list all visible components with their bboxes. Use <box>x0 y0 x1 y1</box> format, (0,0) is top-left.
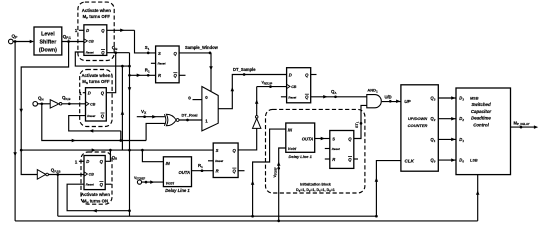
svg-text:Shifter: Shifter <box>40 39 57 45</box>
wire R1 into SR1 R input <box>130 68 156 77</box>
svg-text:Activate when: Activate when <box>81 192 110 197</box>
svg-text:D: D <box>88 91 91 96</box>
svg-text:CB: CB <box>89 40 95 44</box>
svg-text:D: D <box>289 72 292 77</box>
wire QP1B down to bus 2 <box>57 175 59 217</box>
wire SR2 Q up to inverter U3 <box>238 128 257 150</box>
node QA wire FF3 Qbar to AND1 <box>311 89 367 98</box>
delay line 2 box init <box>286 123 315 159</box>
svg-text:CB: CB <box>90 103 96 107</box>
svg-text:Level: Level <box>41 31 55 37</box>
wire SR3 reset stub <box>325 148 330 150</box>
node QN input terminal <box>33 96 44 107</box>
svg-text:COUNTER: COUNTER <box>408 123 428 128</box>
node QP input terminal <box>9 34 19 44</box>
wire FF4 reset loop <box>67 184 129 212</box>
wire FF4 Qbar stub <box>105 183 111 185</box>
svg-text:DT_Real: DT_Real <box>182 113 198 118</box>
svg-text:S: S <box>332 136 335 141</box>
wire SR1 Qbar stub <box>179 74 185 76</box>
SR latch SR3 <box>330 131 354 169</box>
svg-text:Vctrl: Vctrl <box>288 147 297 151</box>
wire QP down left rail <box>13 42 17 221</box>
svg-text:DT_Sample: DT_Sample <box>233 67 256 72</box>
svg-text:CLK: CLK <box>405 158 415 163</box>
svg-text:(Down): (Down) <box>39 47 57 53</box>
wire bottom bus 1 <box>15 220 478 223</box>
wire FF4 Q rising rail <box>121 66 125 150</box>
svg-text:OUTA: OUTA <box>178 170 190 175</box>
svg-text:1: 1 <box>75 159 78 164</box>
svg-text:Delay Line 1: Delay Line 1 <box>165 188 190 193</box>
wire FF1 reset loop <box>75 52 129 67</box>
svg-text:Activate when: Activate when <box>82 8 112 13</box>
wire SR2 Qbar stub <box>238 170 244 172</box>
svg-text:0: 0 <box>188 95 191 100</box>
wire FF4 Q up to S net <box>105 150 117 161</box>
node QB wire from FF1 Qbar <box>107 45 130 54</box>
svg-text:LSB: LSB <box>470 159 478 163</box>
svg-text:Reset: Reset <box>158 62 167 66</box>
svg-text:D: D <box>86 159 89 164</box>
wire FF3 reset stub <box>281 96 287 98</box>
flip-flop FF2 <box>86 88 107 121</box>
wire QP1 down-left to inverter <box>19 42 68 175</box>
wire delay line IN from S net <box>142 150 163 162</box>
wire QB vertical rail down to bus 2 <box>128 53 132 217</box>
wire FF1 Q to SR1 S input <box>107 29 156 55</box>
wire SR3 Qbar stub <box>354 158 358 160</box>
node ST1 wire SR3 Q up to AND1 <box>354 105 367 138</box>
wire FF3 Q stub <box>311 74 317 76</box>
wire FF4 Q long net to SR2 S <box>21 148 213 152</box>
dashed block activate when MN turns OFF <box>80 70 112 127</box>
wire init Vctrl from bus 1 <box>273 148 286 221</box>
node QP1 wire level shifter to FF1 CB <box>62 34 84 43</box>
svg-text:OUTA: OUTA <box>302 136 314 141</box>
node DT_Sample wire mux output to FF3 D <box>218 67 286 109</box>
node VDTREF input terminal <box>134 176 163 184</box>
delay line 1 box <box>163 157 191 193</box>
svg-text:S: S <box>158 51 161 56</box>
svg-text:Activate when: Activate when <box>81 73 110 78</box>
wire SR1 reset stub <box>151 62 156 64</box>
level shifter U1 <box>34 27 62 55</box>
svg-text:Capacitor: Capacitor <box>471 109 492 114</box>
flip-flop FF1 <box>84 25 107 56</box>
svg-text:CB: CB <box>291 85 297 89</box>
svg-text:1: 1 <box>75 28 78 33</box>
mux MUX1 <box>202 87 218 131</box>
AND gate AND1 <box>367 88 382 108</box>
dashed block activate when MN turns ON <box>81 152 112 204</box>
node QNB wire to FF2 CB <box>62 95 86 105</box>
wire QP to level shifter <box>13 40 34 44</box>
svg-text:Reset: Reset <box>86 183 95 187</box>
wire QN to inverter <box>38 102 51 105</box>
wire FF2 reset loop from QN wire <box>69 116 122 142</box>
svg-text:D: D <box>86 28 89 33</box>
node constant 1 into FF4 D <box>75 159 84 164</box>
node U/D wire AND1 to counter UP <box>382 94 401 103</box>
svg-text:R: R <box>216 169 219 174</box>
inverter QP1B <box>37 170 48 180</box>
svg-text:Vctrl: Vctrl <box>166 181 175 185</box>
svg-text:Reset: Reset <box>288 95 297 99</box>
node QP1B wire to FF4 CB <box>48 167 84 175</box>
wire QN down to XNOR <box>42 104 165 142</box>
svg-text:R: R <box>332 157 335 162</box>
node Sample_Window wire to mux select <box>179 45 219 91</box>
node DT_Real wire to mux input 1 <box>179 113 202 122</box>
wire Q1 to D1 <box>438 138 456 142</box>
dashed block activate when MP turns OFF <box>78 2 114 60</box>
wire init IN feed from bus 2 <box>251 129 286 216</box>
svg-text:S: S <box>216 148 219 153</box>
svg-text:Deadtime: Deadtime <box>471 116 491 121</box>
wire bottom bus 2 to CLK riser <box>58 215 378 218</box>
svg-text:CB: CB <box>89 173 95 177</box>
SR latch SR1 <box>156 46 180 83</box>
svg-text:Switched: Switched <box>471 102 491 107</box>
node VREFUP wire to FF3 CB <box>257 81 287 88</box>
svg-text:Reset: Reset <box>86 51 95 55</box>
node constant 0 into mux <box>188 95 202 100</box>
wire Q2 to D2 <box>438 117 456 121</box>
wire SR2 reset stub <box>208 160 213 162</box>
wire FF2 Q up to QB node <box>106 53 115 93</box>
svg-text:Reset: Reset <box>215 159 224 163</box>
XNOR gate U2 <box>164 114 179 126</box>
wire CLK from bus 2 <box>375 161 401 217</box>
svg-text:UP/DOWN: UP/DOWN <box>408 116 427 121</box>
svg-text:Sample_Window: Sample_Window <box>185 45 219 50</box>
wire Q3 to D3 <box>438 96 456 100</box>
node VX input wire <box>137 109 165 118</box>
flip-flop FF4 <box>84 156 105 190</box>
flip-flop FF3 <box>287 68 311 103</box>
svg-text:U/D: U/D <box>385 94 392 99</box>
wire switched cap bottom to bus 1 <box>476 175 480 221</box>
dashed initialization block <box>266 109 365 193</box>
svg-text:Delay Line 1: Delay Line 1 <box>289 154 313 159</box>
svg-text:Initialization Block: Initialization Block <box>300 183 331 187</box>
inverter U3 vertical <box>253 87 261 129</box>
node MP_DELAY output wire <box>511 120 539 129</box>
wire init delay OUTA to SR3 S <box>315 137 330 141</box>
wire Q0 to D0 <box>438 158 456 162</box>
node constant 1 into FF2 D <box>79 91 85 96</box>
node R1 delay output wire to SR2 R <box>192 163 214 172</box>
up/down counter U4 <box>401 85 438 171</box>
svg-text:Reset: Reset <box>87 114 96 118</box>
switched capacitor deadtime control U5 <box>456 88 511 175</box>
svg-text:UP: UP <box>404 99 411 104</box>
svg-text:R: R <box>158 73 161 78</box>
svg-text:Reset: Reset <box>332 147 341 151</box>
svg-text:Control: Control <box>473 122 489 127</box>
inverter QNB <box>50 100 62 108</box>
node constant 1 into FF1 D <box>75 28 84 33</box>
svg-text:MSB: MSB <box>470 97 479 101</box>
SR latch SR2 <box>213 143 238 178</box>
svg-text:1: 1 <box>79 91 82 96</box>
wire SR3 R stub <box>325 158 330 160</box>
